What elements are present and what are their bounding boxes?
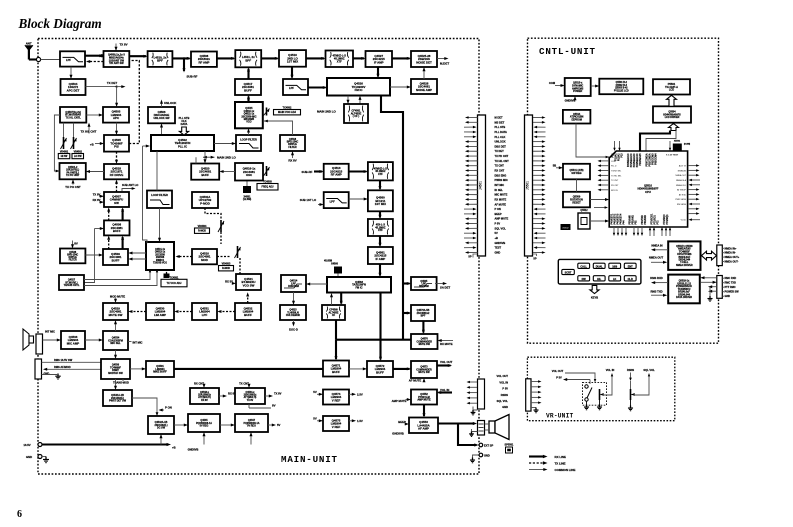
svg-text:1ST MIX: 1ST MIX [287, 60, 298, 64]
buffer Q4520 [191, 164, 219, 180]
label 5V out [268, 424, 275, 426]
wire mic sel up to mute sw [115, 322, 117, 332]
svg-text:13.5V: 13.5V [23, 443, 30, 447]
svg-text:+B: +B [90, 142, 94, 146]
wire X5501 stub [669, 141, 671, 150]
MCU left pin arrow 207 [594, 207, 607, 209]
svg-text:VOL OUT: VOL OUT [497, 374, 509, 378]
bus arrow keyboard [590, 285, 599, 293]
svg-text:PLL CLK: PLL CLK [495, 135, 506, 139]
svg-text:NMEA IN+: NMEA IN+ [725, 247, 737, 250]
svg-text:5V REG: 5V REG [200, 425, 209, 428]
svg-text:( CF ): ( CF ) [353, 115, 360, 118]
svg-text:VOL IN: VOL IN [440, 388, 449, 392]
wire FM IC output down (thick) [381, 96, 403, 340]
svg-text:GND: GND [44, 372, 50, 376]
svg-text:M DET: M DET [495, 116, 503, 120]
svg-text:TX/SUB VCO: TX/SUB VCO [153, 263, 167, 265]
svg-text:P40/KEY1: P40/KEY1 [611, 213, 614, 224]
connector J5501 (CNTL to MAIN) [525, 115, 533, 256]
volume pot dashed enclosure [583, 382, 607, 405]
crystal X5501 at MCU top [673, 141, 691, 151]
main VCO Q4515/Q4516/Q4521 [235, 102, 263, 128]
ceramic filter CF4501 [344, 104, 368, 123]
svg-text:Block Diagram: Block Diagram [18, 16, 102, 31]
svg-text:P ON: P ON [165, 406, 172, 410]
svg-text:DUAL: DUAL [596, 265, 603, 268]
label VR4502 [72, 151, 84, 159]
wire VR4502 up to Q4507hx [73, 123, 75, 137]
svg-text:X5501: X5501 [674, 141, 681, 143]
svg-text:APC DET: APC DET [67, 88, 80, 92]
ceramic filter CF4560 [322, 305, 345, 320]
label INT MIC right [128, 341, 132, 343]
wire af bus drop to buffer Q4571 [335, 340, 337, 359]
wire 1ST MIX down to LPF2 [291, 67, 293, 78]
wire RSNS down to sql pot [630, 373, 632, 379]
svg-text:TX CNT: TX CNT [239, 382, 249, 386]
svg-text:SP5501: SP5501 [505, 444, 515, 447]
sub FM IC Q4563 [327, 277, 391, 293]
wire 1st mix down to xtf2 [379, 211, 381, 217]
wire lim amp to lpf dashed [176, 311, 192, 313]
svg-text:J5501: J5501 [526, 181, 530, 190]
bus arrow LCD driver to LCD [667, 95, 677, 106]
wire Q4576 down to Q4570 [422, 321, 424, 333]
svg-text:TX PO UNIT: TX PO UNIT [66, 174, 80, 177]
svg-text:XTF: XTF [378, 229, 383, 232]
svg-text:P ON: P ON [495, 207, 501, 211]
svg-text:TX CNT: TX CNT [495, 164, 505, 168]
svg-text:TX PD CNT: TX PD CNT [495, 154, 509, 158]
svg-text:Q4544-x: Q4544-x [246, 391, 256, 394]
svg-text:TX DET: TX DET [107, 81, 118, 85]
ground vol sw [584, 405, 589, 410]
svg-text:AUX TX: AUX TX [679, 165, 687, 168]
svg-text:Q5512: Q5512 [580, 209, 588, 212]
svg-text:POWER: POWER [573, 90, 582, 93]
bus arrow PLL data [179, 127, 188, 135]
label TC4502 [274, 107, 301, 115]
label VOL IN into Q4552 [439, 391, 453, 393]
svg-text:RMS TXD: RMS TXD [650, 289, 662, 293]
wire sub FM IC to CF4560 stubs [331, 295, 333, 306]
trimmer VR4504 [218, 220, 224, 232]
ground ext sp [473, 455, 480, 458]
svg-text:GND: GND [502, 405, 508, 409]
svg-text:5V REG: 5V REG [247, 425, 256, 428]
TX/SUB control Q4527c [59, 275, 84, 290]
ground VR connector sym [533, 408, 538, 413]
svg-text:UNLOCK: UNLOCK [495, 140, 506, 144]
svg-text:RESET: RESET [572, 201, 581, 204]
svg-text:RMS AF/MOD: RMS AF/MOD [54, 365, 71, 369]
label VOL OUT from Q4573 [437, 364, 451, 366]
wire Q5511 down to Q5509 [576, 179, 578, 192]
svg-text:MUTE SW: MUTE SW [419, 343, 431, 346]
svg-text:8V: 8V [74, 242, 78, 246]
trimmer TC4501 tag [164, 274, 170, 279]
wire VCO buffer up to BPF2 [247, 69, 249, 79]
svg-text:VOL IN: VOL IN [606, 368, 615, 372]
svg-text:AMP MUTE: AMP MUTE [495, 217, 509, 221]
svg-text:PWRT DET SW: PWRT DET SW [109, 400, 127, 403]
svg-text:5V: 5V [313, 390, 317, 394]
wire RMS mod sw down to att [115, 379, 117, 389]
svg-text:DATA DRIVER: DATA DRIVER [676, 296, 692, 299]
svg-text:BPX-134C: BPX-134C [67, 253, 78, 256]
wire mic amp to mic sel [85, 339, 102, 341]
svg-text:BUFF: BUFF [112, 258, 120, 262]
svg-text:INT MIC: INT MIC [495, 183, 505, 187]
svg-text:MAIN-UNIT: MAIN-UNIT [281, 454, 338, 465]
wire loop filter tx down to TX VCO [159, 208, 161, 241]
wire sub rf amp to xtf [349, 170, 367, 172]
svg-text:AMP MUTE: AMP MUTE [417, 399, 431, 402]
wire lpf to buffer dashed [219, 311, 235, 313]
svg-text:P12/A2: P12/A2 [618, 153, 621, 161]
svg-text:TX H/L CNT: TX H/L CNT [81, 130, 97, 134]
svg-text:P74/IRQ1: P74/IRQ1 [666, 214, 669, 225]
wire FM IC to CF4501 stubs [347, 96, 349, 103]
crystal X4560 [324, 260, 342, 274]
svg-text:MAIN 2ND LO: MAIN 2ND LO [217, 156, 237, 160]
wire VOL OUT to pot [565, 373, 595, 380]
ground rms connector [55, 374, 60, 380]
svg-text:FILTER: FILTER [69, 260, 77, 262]
svg-text:KEYB: KEYB [591, 295, 598, 299]
trimmer VR4503b [235, 246, 241, 258]
AF buffer Q4571 [323, 361, 349, 377]
svg-text:5V: 5V [277, 423, 281, 427]
wire FM IC to NOISE AMP [390, 86, 410, 88]
svg-text:P/S: P/S [114, 145, 119, 149]
svg-text:P61/RXD: P61/RXD [645, 215, 647, 225]
svg-text:CNTL-UNIT: CNTL-UNIT [539, 46, 596, 57]
svg-text:BEEP: BEEP [398, 420, 406, 424]
wire MOD dashed to VCO [177, 256, 192, 258]
NMEA driver Q5517/Q5518 [668, 241, 700, 270]
MCU left pins [598, 160, 623, 192]
svg-text:P13: P13 [622, 153, 624, 158]
key DUAL [593, 263, 605, 268]
connector J5503 DATA [717, 276, 723, 299]
svg-text:SUB ANT LO: SUB ANT LO [122, 183, 138, 187]
svg-text:PY1112E LCD: PY1112E LCD [614, 90, 629, 92]
svg-text:AF MUTE: AF MUTE [495, 202, 507, 206]
wire Q5515 to LCD module [591, 85, 598, 87]
loop filter tx [147, 191, 172, 209]
wire loop filter up to MAIN VCO [248, 130, 250, 135]
svg-text:TX 8V: TX 8V [93, 192, 101, 196]
pot SQL VR5502 [631, 389, 635, 400]
svg-text:HI PW: HI PW [61, 156, 68, 158]
svg-text:P52: P52 [636, 220, 638, 225]
svg-text:LPF: LPF [289, 86, 294, 90]
svg-text:NOISE AMP: NOISE AMP [416, 88, 432, 92]
ground VR connector [531, 407, 536, 409]
ground stub below speaker connector [472, 429, 478, 432]
svg-text:MS DET: MS DET [495, 120, 505, 124]
svg-text:GND: GND [26, 455, 32, 459]
svg-text:SUB-RF: SUB-RF [302, 170, 313, 174]
svg-text:CPU: CPU [645, 190, 651, 194]
PLL IC Q4502 [151, 135, 214, 151]
svg-text:P71/SO1: P71/SO1 [655, 214, 657, 224]
svg-text:TX VCO ADJ: TX VCO ADJ [167, 282, 183, 285]
svg-text:BUFF: BUFF [201, 173, 209, 177]
svg-text:NMEA OUT+: NMEA OUT+ [725, 256, 740, 259]
svg-text:MIC MUTE: MIC MUTE [495, 193, 508, 197]
svg-text:TX CNT: TX CNT [611, 180, 619, 182]
svg-text:NMEA OUT: NMEA OUT [676, 174, 687, 177]
svg-text:DSC-D: DSC-D [289, 328, 298, 332]
svg-text:LPF: LPF [66, 58, 71, 62]
connector J5504 VR [526, 379, 531, 411]
svg-text:TEST: TEST [495, 246, 502, 250]
svg-text:GND: GND [484, 453, 490, 457]
ground stub above speaker connector [473, 407, 478, 411]
modulator Q4510m [192, 249, 217, 264]
svg-text:Q4543-x: Q4543-x [200, 391, 210, 394]
svg-text:16/9: 16/9 [612, 265, 617, 268]
wire sub FM IC to discrim [308, 283, 328, 285]
svg-text:COM: COM [611, 161, 616, 163]
svg-text:MIC AMP: MIC AMP [67, 341, 79, 345]
svg-text:2.5V: 2.5V [357, 392, 363, 396]
discrim curve [284, 284, 302, 288]
wire mike buff to AF buffer (long) [174, 368, 323, 370]
limiter amp Q4530 [146, 303, 174, 320]
svg-text:NMEA OUT: NMEA OUT [649, 256, 664, 260]
svg-text:LK: LK [613, 278, 617, 281]
svg-text:LCD: LCD [669, 88, 674, 92]
svg-text:TX H/L SEL: TX H/L SEL [611, 175, 622, 177]
power switch Q4505 [104, 135, 129, 152]
svg-text:8V: 8V [272, 404, 276, 408]
label TX 8V out [265, 395, 272, 397]
svg-text:RX 8V: RX 8V [201, 400, 208, 402]
RMS mod switch Q4536 [101, 359, 130, 379]
key ENT [624, 263, 636, 268]
wire af bus into Q4570 [336, 339, 411, 341]
wire 13.5V up to reg2 [250, 434, 252, 445]
data driver Q5519-Q5522 [668, 275, 700, 304]
svg-text:POWER SW: POWER SW [725, 291, 740, 294]
bus arrow MCU to LCD driver [669, 124, 679, 131]
svg-text:P50/AN0: P50/AN0 [629, 214, 632, 224]
svg-text:P20/SEG11C: P20/SEG11C [628, 153, 630, 167]
mike buffer Q4501m [146, 361, 174, 377]
svg-text:MUTE SW: MUTE SW [418, 371, 430, 374]
att tx Q4544 [235, 388, 265, 404]
svg-text:M.DET: M.DET [440, 62, 450, 66]
svg-text:(12.8M): (12.8M) [243, 198, 251, 201]
MCU top pin stubs [613, 141, 620, 151]
svg-text:R-MOD: R-MOD [198, 230, 206, 233]
labels DATA connector [722, 277, 739, 298]
wire sub if amp down to sub FM IC [379, 264, 381, 276]
svg-text:MOD: MOD [201, 258, 208, 262]
svg-text:MOD MUTE: MOD MUTE [110, 294, 125, 298]
ground ext sp sym [470, 458, 475, 463]
svg-text:TX H/L CNTL: TX H/L CNTL [66, 117, 82, 120]
wire mute sw to lim amp dashed [130, 311, 146, 313]
label RX MUTE into Q4570 [439, 340, 453, 342]
voltage ref Q4574 [323, 390, 349, 405]
labels NMEA connector [722, 247, 739, 263]
LCD driver Q5504 [653, 106, 691, 122]
svg-text:R-MOD: R-MOD [222, 267, 230, 270]
wire Q5509 to MCU [590, 199, 608, 201]
wire thick line into Q4576 [403, 312, 410, 314]
AF buffer Q4572 [367, 361, 393, 377]
svg-text:V REF: V REF [332, 398, 341, 402]
node 13.5V input [38, 443, 42, 447]
ground main input [43, 457, 49, 463]
wire P-MOD dashed to VR4504 [205, 208, 221, 219]
PA unit Q4501-2 [60, 163, 86, 179]
wire RF AMP to BPF2 [217, 57, 234, 59]
wire Q4571 to Q4572 [349, 368, 366, 370]
svg-text:5B: 5B [553, 164, 556, 168]
key LK [609, 276, 621, 281]
svg-text:LOOP FILTER: LOOP FILTER [151, 193, 168, 197]
wire xtf down to sub 1st mix [379, 180, 381, 188]
speaker SP5501 symbol [489, 415, 509, 440]
svg-text:VLCD: VLCD [681, 220, 687, 222]
wire P 5V arrow [565, 379, 591, 381]
wire SQL VOL from pot wiper [634, 376, 650, 395]
wire LPF2 to FM IC [308, 86, 326, 88]
svg-text:SQL VOL: SQL VOL [497, 399, 509, 403]
1st mixer Q4510 [279, 50, 306, 67]
noise amp Q4528 [411, 79, 437, 94]
svg-text:RF AMP: RF AMP [198, 60, 209, 64]
svg-text:P 5V: P 5V [502, 387, 508, 391]
trimmer TC4503 osc [264, 166, 270, 176]
wire MAIN 2ND LO from PLL [203, 156, 237, 160]
wire TX/SUB CNTL to VCO bottom 2 [84, 270, 157, 286]
svg-text:P42/KEY3: P42/KEY3 [617, 213, 620, 224]
svg-text:P30/COM1A: P30/COM1A [646, 153, 649, 166]
key DW [578, 276, 590, 281]
svg-text:(9.8M): (9.8M) [684, 144, 691, 146]
svg-text:RF AMP: RF AMP [331, 173, 342, 177]
wire sub FM IC down right [379, 293, 381, 340]
wire LPF1 down to APC DET [70, 67, 72, 78]
svg-text:COMMON LINE: COMMON LINE [555, 468, 576, 472]
MCU internal pin name smudges top [613, 153, 679, 168]
legend COMMON LINE [529, 468, 575, 472]
wire IF AMP to NOISE DET [392, 57, 410, 59]
wire P/S dashed to ANT SW (TX 8V) [129, 61, 139, 144]
svg-text:FM IC: FM IC [355, 286, 362, 290]
LCD module Q5501-03 [599, 79, 643, 95]
svg-text:SQL VOL: SQL VOL [495, 226, 507, 230]
svg-text:UNLOCK SW: UNLOCK SW [154, 116, 171, 120]
sub crystal filter XF4502 [368, 162, 393, 180]
speaker connector J4502 pins [467, 381, 478, 405]
svg-text:SA DET: SA DET [440, 286, 450, 290]
label DSC-D and arrow [293, 320, 295, 325]
svg-text:PTT RMC: PTT RMC [725, 286, 736, 289]
svg-text:H/L: H/L [597, 278, 602, 281]
bus double arrow NMEA [702, 251, 717, 260]
svg-text:ENT: ENT [628, 265, 633, 268]
AF amp Q4553 [409, 418, 438, 434]
wire node to LPF [41, 59, 60, 61]
node GND sp [479, 453, 483, 457]
svg-text:DW: DW [582, 278, 587, 281]
discrim2 curve [414, 284, 432, 288]
svg-text:LPF: LPF [330, 199, 335, 203]
svg-text:X4560: X4560 [331, 263, 339, 266]
switch Q4507s [104, 192, 129, 207]
svg-text:RM SENS: RM SENS [677, 204, 687, 206]
svg-text:MUTE SW: MUTE SW [109, 313, 123, 317]
wire antenna to node [29, 58, 37, 60]
svg-text:P 5V: P 5V [556, 375, 562, 379]
wire TX/SUB CNTL to VCO bottom 1 [84, 270, 150, 280]
unlock switch Q4506 [148, 107, 175, 123]
wire thick line into Q4565 [403, 282, 410, 284]
svg-text:MIKE BUFF: MIKE BUFF [153, 371, 167, 374]
wires data driver to connector [702, 277, 717, 279]
svg-text:BPF: BPF [421, 315, 426, 318]
svg-text:VOL IN: VOL IN [499, 380, 508, 384]
svg-text:UNLOCK: UNLOCK [164, 101, 177, 105]
svg-text:T/R ANT SW: T/R ANT SW [109, 62, 124, 65]
labels between MAIN and VR-UNIT [497, 374, 509, 409]
wire NOISE AMP up to NOISE DET [423, 69, 425, 80]
svg-text:2SA1586/2x: 2SA1586/2x [244, 393, 257, 396]
svg-text:DBS DET: DBS DET [495, 144, 507, 148]
svg-text:6: 6 [17, 509, 22, 520]
wires buffer Q4508b up to SW [108, 209, 110, 221]
ripple filter Q4518 [280, 135, 305, 151]
wire Q4507hx to APC [86, 114, 101, 116]
BPF FL4502 [235, 50, 261, 67]
svg-text:CF: CF [332, 314, 336, 317]
svg-text:5P: 5P [468, 255, 471, 259]
svg-text:FM IC: FM IC [355, 88, 364, 92]
MCU right pins [688, 165, 698, 167]
svg-text:BUFF: BUFF [113, 229, 121, 233]
wire discrim down to FSK demod [293, 292, 295, 304]
svg-text:1ST MIX: 1ST MIX [375, 202, 386, 206]
label TC4503 [257, 181, 278, 191]
wire Q4572 to Q4573 [393, 368, 410, 370]
wire XTF to IF AMP [353, 57, 364, 59]
att main Q4541 [103, 390, 132, 406]
sub LPF [324, 192, 349, 208]
svg-text:NMEA IN-: NMEA IN- [725, 252, 736, 255]
svg-text:+B: +B [495, 236, 499, 240]
svg-text:NOISE DET: NOISE DET [416, 60, 432, 64]
key SCRT [562, 269, 575, 274]
MAIN-UNIT dashed border [38, 39, 479, 475]
svg-text:RSNS: RSNS [501, 393, 508, 397]
5V regulator Q4547 [235, 414, 268, 432]
ground data connector [707, 296, 712, 301]
svg-text:5P: 5P [533, 257, 536, 261]
svg-text:P44: P44 [623, 220, 626, 225]
svg-text:ATT(MULTI): ATT(MULTI) [244, 396, 257, 399]
svg-text:LOOP FILTER: LOOP FILTER [240, 137, 257, 141]
key 16/9 [609, 263, 621, 268]
wires VCO to buffer Q4509b [130, 252, 146, 254]
